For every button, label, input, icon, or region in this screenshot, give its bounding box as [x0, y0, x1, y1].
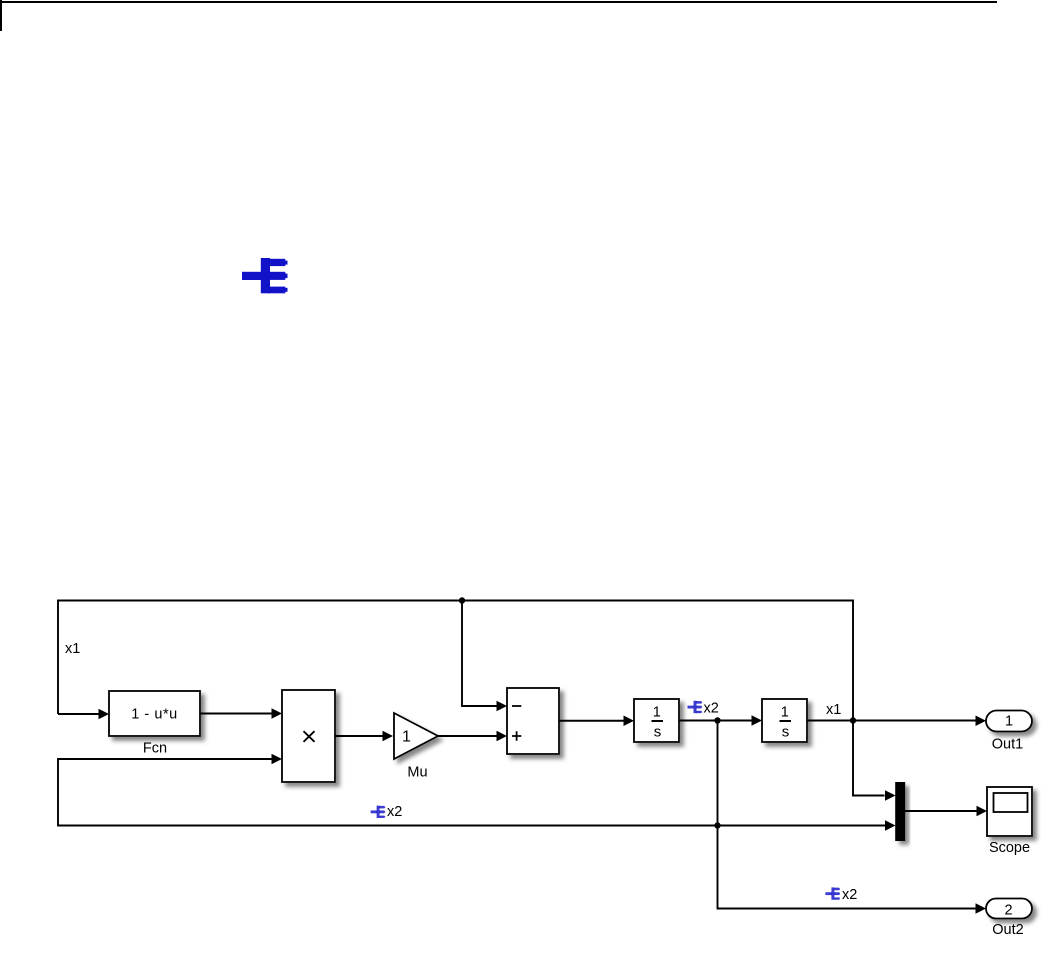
svg-text:Mu: Mu — [407, 765, 427, 781]
svg-text:x1: x1 — [826, 702, 841, 718]
svg-text:Out2: Out2 — [992, 922, 1023, 938]
svg-text:2: 2 — [1004, 903, 1012, 919]
svg-text:1 - u*u: 1 - u*u — [131, 707, 178, 723]
svg-text:x2: x2 — [704, 701, 719, 717]
svg-text:Out1: Out1 — [992, 737, 1023, 753]
svg-text:s: s — [782, 724, 790, 741]
svg-text:s: s — [654, 724, 662, 741]
svg-text:x2: x2 — [842, 887, 857, 903]
svg-text:x1: x1 — [65, 641, 80, 657]
svg-text:Fcn: Fcn — [143, 741, 167, 757]
svg-text:1: 1 — [653, 705, 661, 721]
svg-text:1: 1 — [402, 729, 411, 746]
svg-text:x2: x2 — [387, 804, 402, 820]
svg-text:1: 1 — [781, 705, 789, 721]
svg-text:Scope: Scope — [989, 840, 1030, 856]
svg-text:1: 1 — [1005, 714, 1013, 730]
